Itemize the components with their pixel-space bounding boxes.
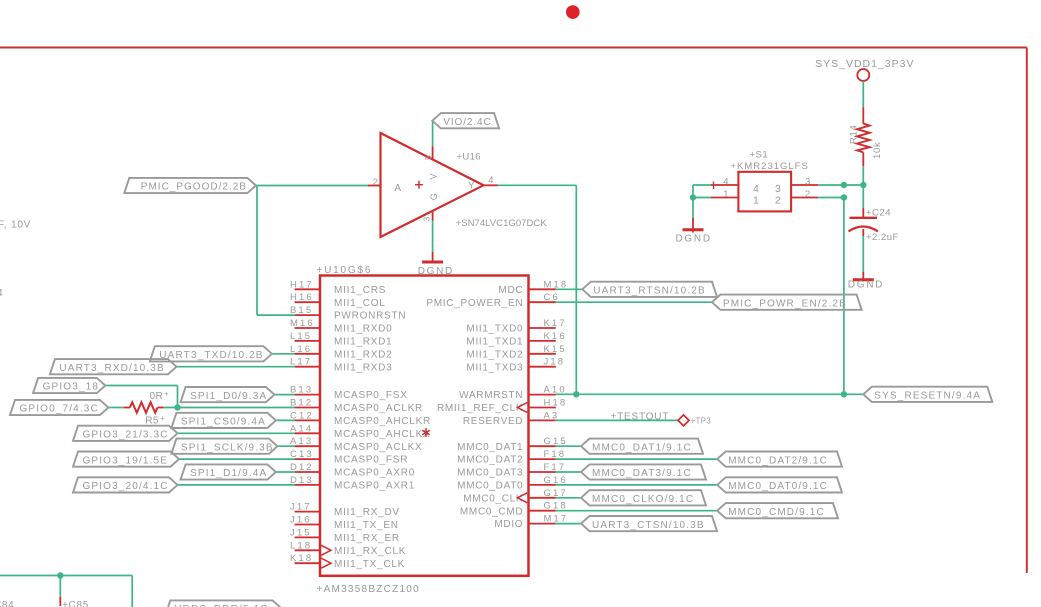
svg-text:+S1: +S1 (750, 149, 769, 160)
svg-text:UART3_RXD/10.3B: UART3_RXD/10.3B (59, 363, 164, 374)
svg-text:MII1_TXD3: MII1_TXD3 (466, 362, 523, 373)
svg-text:MMC0_DAT3/9.1C: MMC0_DAT3/9.1C (592, 468, 692, 479)
svg-text:UART3_TXD/10.2B: UART3_TXD/10.2B (159, 350, 263, 361)
svg-text:MCASP0_AHCLKR: MCASP0_AHCLKR (334, 416, 431, 427)
svg-text:+C24: +C24 (866, 207, 891, 218)
svg-text:MII1_TXD1: MII1_TXD1 (466, 337, 523, 348)
svg-text:SPI1_D0/9.3A: SPI1_D0/9.3A (190, 391, 267, 402)
svg-text:3: 3 (775, 183, 781, 195)
svg-text:V: V (429, 173, 439, 179)
svg-text:DGND: DGND (676, 233, 712, 244)
svg-text:+TESTOUT: +TESTOUT (611, 411, 670, 422)
svg-text:A: A (394, 183, 401, 194)
svg-text:MII1_TXD2: MII1_TXD2 (466, 349, 523, 360)
svg-text:UART3_RTSN/10.2B: UART3_RTSN/10.2B (593, 286, 706, 297)
svg-text:4: 4 (488, 175, 493, 186)
svg-text:GPIO3_18: GPIO3_18 (43, 382, 99, 393)
svg-text:MII1_TX_EN: MII1_TX_EN (334, 520, 399, 531)
svg-text:K18: K18 (290, 553, 313, 564)
svg-text:MMC0_DAT3: MMC0_DAT3 (457, 468, 523, 479)
svg-text:MII1_TXD0: MII1_TXD0 (466, 324, 523, 335)
svg-text:0R: 0R (150, 391, 164, 402)
svg-text:MII1_RXD2: MII1_RXD2 (334, 349, 392, 360)
svg-text:MDC: MDC (498, 285, 523, 296)
svg-text:MII1_RXD3: MII1_RXD3 (334, 362, 392, 373)
svg-text:RMII1_REF_CLK: RMII1_REF_CLK (437, 403, 523, 414)
svg-text:MCASP0_AHCLKX: MCASP0_AHCLKX (334, 429, 430, 440)
svg-text:MCASP0_FSR: MCASP0_FSR (334, 455, 408, 466)
svg-text:PWRONRSTN: PWRONRSTN (334, 311, 406, 322)
svg-text:SPI1_D1/9.4A: SPI1_D1/9.4A (190, 468, 267, 479)
svg-text:MMC0_CMD/9.1C: MMC0_CMD/9.1C (728, 507, 825, 518)
svg-text:UART3_CTSN/10.3B: UART3_CTSN/10.3B (592, 520, 705, 531)
svg-text:MCASP0_AXR1: MCASP0_AXR1 (334, 481, 415, 492)
svg-text:MII1_RXD0: MII1_RXD0 (334, 324, 392, 335)
svg-text:MMC0_DAT2: MMC0_DAT2 (457, 455, 523, 466)
svg-text:VIO/2.4C: VIO/2.4C (443, 117, 491, 128)
svg-text:+2.2uF: +2.2uF (866, 232, 899, 243)
svg-text:MII1_RXD1: MII1_RXD1 (334, 337, 392, 348)
svg-text:10k: 10k (872, 142, 883, 159)
svg-text:1: 1 (753, 194, 759, 206)
svg-text:5: 5 (423, 155, 433, 160)
svg-text:+U16: +U16 (456, 152, 481, 163)
svg-text:MII1_RX_DV: MII1_RX_DV (334, 507, 400, 518)
svg-text:PMIC_PGOOD/2.2B: PMIC_PGOOD/2.2B (141, 182, 247, 193)
svg-text:4: 4 (723, 177, 728, 188)
svg-text:MII1_CRS: MII1_CRS (334, 285, 386, 296)
svg-text:MDIO: MDIO (494, 519, 523, 530)
svg-text:MCASP0_AXR0: MCASP0_AXR0 (334, 468, 415, 479)
svg-text:DGND: DGND (848, 279, 884, 290)
svg-text:4: 4 (0, 288, 3, 299)
svg-text:MMC0_CLK: MMC0_CLK (463, 493, 523, 504)
svg-text:M16: M16 (290, 318, 315, 329)
svg-text:MMC0_CLKO/9.1C: MMC0_CLKO/9.1C (592, 494, 694, 505)
svg-text:J17: J17 (290, 502, 312, 513)
svg-text:GPIO3_20/4.1C: GPIO3_20/4.1C (83, 481, 169, 492)
svg-text:MII1_COL: MII1_COL (334, 298, 386, 309)
svg-text:SPI1_SCLK/9.3B: SPI1_SCLK/9.3B (181, 442, 274, 453)
svg-text:MMC0_DAT2/9.1C: MMC0_DAT2/9.1C (728, 455, 828, 466)
svg-text:MMC0_DAT1: MMC0_DAT1 (457, 442, 523, 453)
svg-text:Y: Y (468, 181, 475, 192)
svg-text:MMC0_DAT1/9.1C: MMC0_DAT1/9.1C (592, 442, 692, 453)
svg-text:J16: J16 (290, 515, 312, 526)
svg-text:+SN74LVC1G07DCK: +SN74LVC1G07DCK (456, 218, 548, 229)
svg-text:GPIO3_19/1.5E: GPIO3_19/1.5E (83, 455, 169, 466)
svg-text:2: 2 (373, 177, 378, 188)
svg-text:MCASP0_FSX: MCASP0_FSX (334, 390, 408, 401)
svg-text:GPIO0_7/4.3C: GPIO0_7/4.3C (20, 404, 99, 415)
svg-text:+U10G$6: +U10G$6 (317, 265, 373, 276)
svg-text:MII1_RX_ER: MII1_RX_ER (334, 533, 400, 544)
svg-text:GPIO3_21/3.3C: GPIO3_21/3.3C (83, 430, 169, 441)
svg-text:+TP3: +TP3 (691, 416, 712, 425)
svg-text:1: 1 (723, 189, 728, 200)
svg-text:K16: K16 (544, 331, 567, 342)
svg-text:SPI1_CS0/9.4A: SPI1_CS0/9.4A (181, 417, 266, 428)
svg-text:L15: L15 (290, 331, 312, 342)
svg-text:J15: J15 (290, 527, 312, 538)
svg-text:MII1_RX_CLK: MII1_RX_CLK (334, 546, 406, 557)
svg-text:MMC0_CMD: MMC0_CMD (460, 506, 523, 517)
svg-text:3: 3 (422, 217, 432, 222)
svg-text:PMIC_POWR_EN/2.2B: PMIC_POWR_EN/2.2B (723, 298, 847, 309)
svg-text:SYS_RESETN/9.4A: SYS_RESETN/9.4A (874, 391, 981, 402)
svg-text:MMC0_DAT0: MMC0_DAT0 (457, 481, 523, 492)
svg-text:K15: K15 (544, 344, 567, 355)
svg-text:+C85: +C85 (62, 600, 89, 607)
svg-text:2: 2 (775, 194, 781, 206)
svg-text:3: 3 (805, 177, 810, 188)
svg-text:+AM3358BZCZ100: +AM3358BZCZ100 (317, 584, 420, 595)
svg-text:L18: L18 (290, 540, 312, 551)
svg-text:MII1_TX_CLK: MII1_TX_CLK (334, 559, 405, 570)
svg-text:2: 2 (805, 189, 810, 200)
svg-text:H18: H18 (544, 398, 568, 409)
svg-text:H16: H16 (290, 292, 314, 303)
svg-text:+KMR231GLFS: +KMR231GLFS (731, 161, 809, 172)
svg-text:J18: J18 (544, 357, 566, 368)
svg-text:R14: R14 (849, 124, 860, 144)
svg-text:K17: K17 (544, 318, 567, 329)
svg-text:G: G (429, 193, 439, 200)
svg-text:SYS_VDD1_3P3V: SYS_VDD1_3P3V (815, 58, 914, 70)
svg-text:RESERVED: RESERVED (463, 416, 523, 427)
svg-text:+: + (160, 414, 165, 423)
svg-text:MCASP0_ACLKR: MCASP0_ACLKR (334, 403, 423, 414)
svg-text:WARMRSTN: WARMRSTN (459, 390, 523, 401)
svg-text:MMC0_DAT0/9.1C: MMC0_DAT0/9.1C (728, 481, 828, 492)
svg-text:H17: H17 (290, 279, 314, 290)
svg-text:4: 4 (753, 183, 759, 195)
svg-text:+: + (164, 390, 169, 399)
svg-text:MCASP0_ACLKX: MCASP0_ACLKX (334, 442, 422, 453)
svg-text:F, 10V: F, 10V (0, 220, 31, 231)
svg-text:PMIC_POWER_EN: PMIC_POWER_EN (426, 298, 523, 309)
svg-text:C84: C84 (0, 600, 14, 607)
